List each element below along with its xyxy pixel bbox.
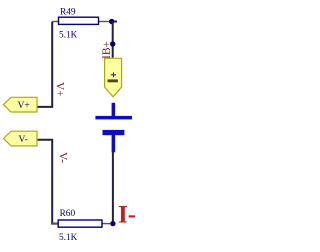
port V+ (yellow flag pointing left) [4,97,38,112]
resistor R60 pin left [52,223,58,225]
wire: top-right stub [109,21,117,23]
resistor R60 pin right [102,223,111,225]
svg-text:R49: R49 [60,7,76,17]
svg-text:5.1K: 5.1K [59,233,78,243]
junction dot at R49 output node [109,19,114,24]
dark bar inside probe flag [108,79,118,82]
battery top plate (long) [95,116,132,120]
junction dot at R60 output node [110,221,115,226]
battery BT top pin [112,103,116,118]
battery bottom pin [112,135,116,152]
svg-text:IB+: IB+ [101,41,113,59]
svg-text:R60: R60 [60,209,76,219]
wire: left vertical rail top segment (V+ to R49) [37,22,52,107]
battery bottom plate (short thick) [103,130,125,135]
svg-text:V-: V- [19,135,28,145]
resistor R49 pin right [99,21,110,23]
svg-text:I-: I- [118,202,136,229]
svg-text:V-: V- [57,152,69,163]
resistor R60 body [58,220,102,227]
svg-text:V+: V+ [54,82,66,97]
port V- (yellow flag pointing left) [4,131,38,146]
resistor R49 body [59,17,99,24]
resistor R49 pin left [52,21,58,23]
plus symbol inside probe flag [111,72,116,77]
port flag "+" (probe, pointing down) [105,58,122,97]
svg-text:5.1K: 5.1K [59,30,78,40]
junction dot at IB+ node [110,41,115,46]
wire: left vertical rail bottom segment (V- to R60) [37,140,59,224]
wire: right vertical from node down to probe flag [112,22,114,58]
wire: right vertical rail from battery down to R60 node [112,152,114,224]
svg-text:V+: V+ [18,101,30,111]
